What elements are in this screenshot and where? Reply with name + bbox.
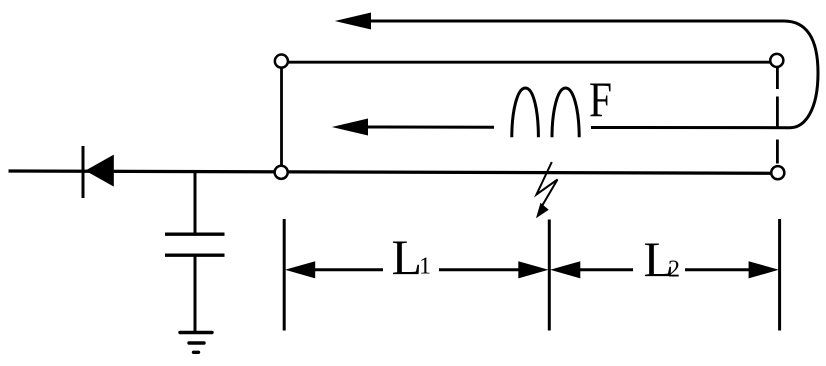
- arrow: middle current arrow: [332, 119, 368, 136]
- wire: L1 shaft right: [439, 268, 520, 271]
- coil F second arch: [552, 88, 579, 137]
- dimension tick right: [778, 219, 781, 331]
- node: top-right terminal: [770, 54, 783, 67]
- dimension L1 left arrow: [285, 261, 315, 278]
- dimension L2 left arrow: [550, 261, 580, 278]
- wire: L1 shaft left: [313, 268, 383, 271]
- dimension L2 right arrow: [749, 261, 779, 278]
- svg-text:2: 2: [668, 257, 680, 283]
- ground: [180, 331, 212, 334]
- wire: left vertical link: [280, 61, 283, 172]
- capacitor C bottom plate: [165, 253, 225, 256]
- diode D triangle: [85, 155, 114, 187]
- node: top-left terminal: [275, 55, 288, 68]
- wire: top conductor: [282, 61, 778, 64]
- wire: return current path with U-turn: [369, 21, 818, 128]
- dimension tick middle: [548, 220, 551, 331]
- lightning fault arrow: [537, 162, 558, 209]
- svg-text:1: 1: [419, 254, 431, 280]
- dimension L1 right arrow: [518, 261, 548, 278]
- node: bottom-right terminal: [771, 166, 784, 179]
- svg-text:F: F: [589, 71, 612, 127]
- wire: capacitor to ground: [194, 255, 197, 331]
- wire: L2 shaft right: [685, 268, 751, 271]
- wire: L2 shaft left: [578, 268, 633, 271]
- diode D cathode bar: [82, 146, 85, 198]
- coil F first arch: [512, 88, 539, 137]
- wire: capacitor stem: [194, 171, 197, 234]
- arrow: top current arrow: [335, 13, 371, 30]
- svg-text:L: L: [392, 229, 423, 285]
- dimension tick left: [283, 219, 286, 331]
- wire: right dashed vertical link: [776, 68, 779, 164]
- capacitor C top plate: [165, 232, 225, 235]
- wire: middle current path segment: [367, 126, 494, 129]
- wire: main horizontal conductor: [9, 171, 779, 173]
- node: bottom-left terminal: [275, 166, 288, 179]
